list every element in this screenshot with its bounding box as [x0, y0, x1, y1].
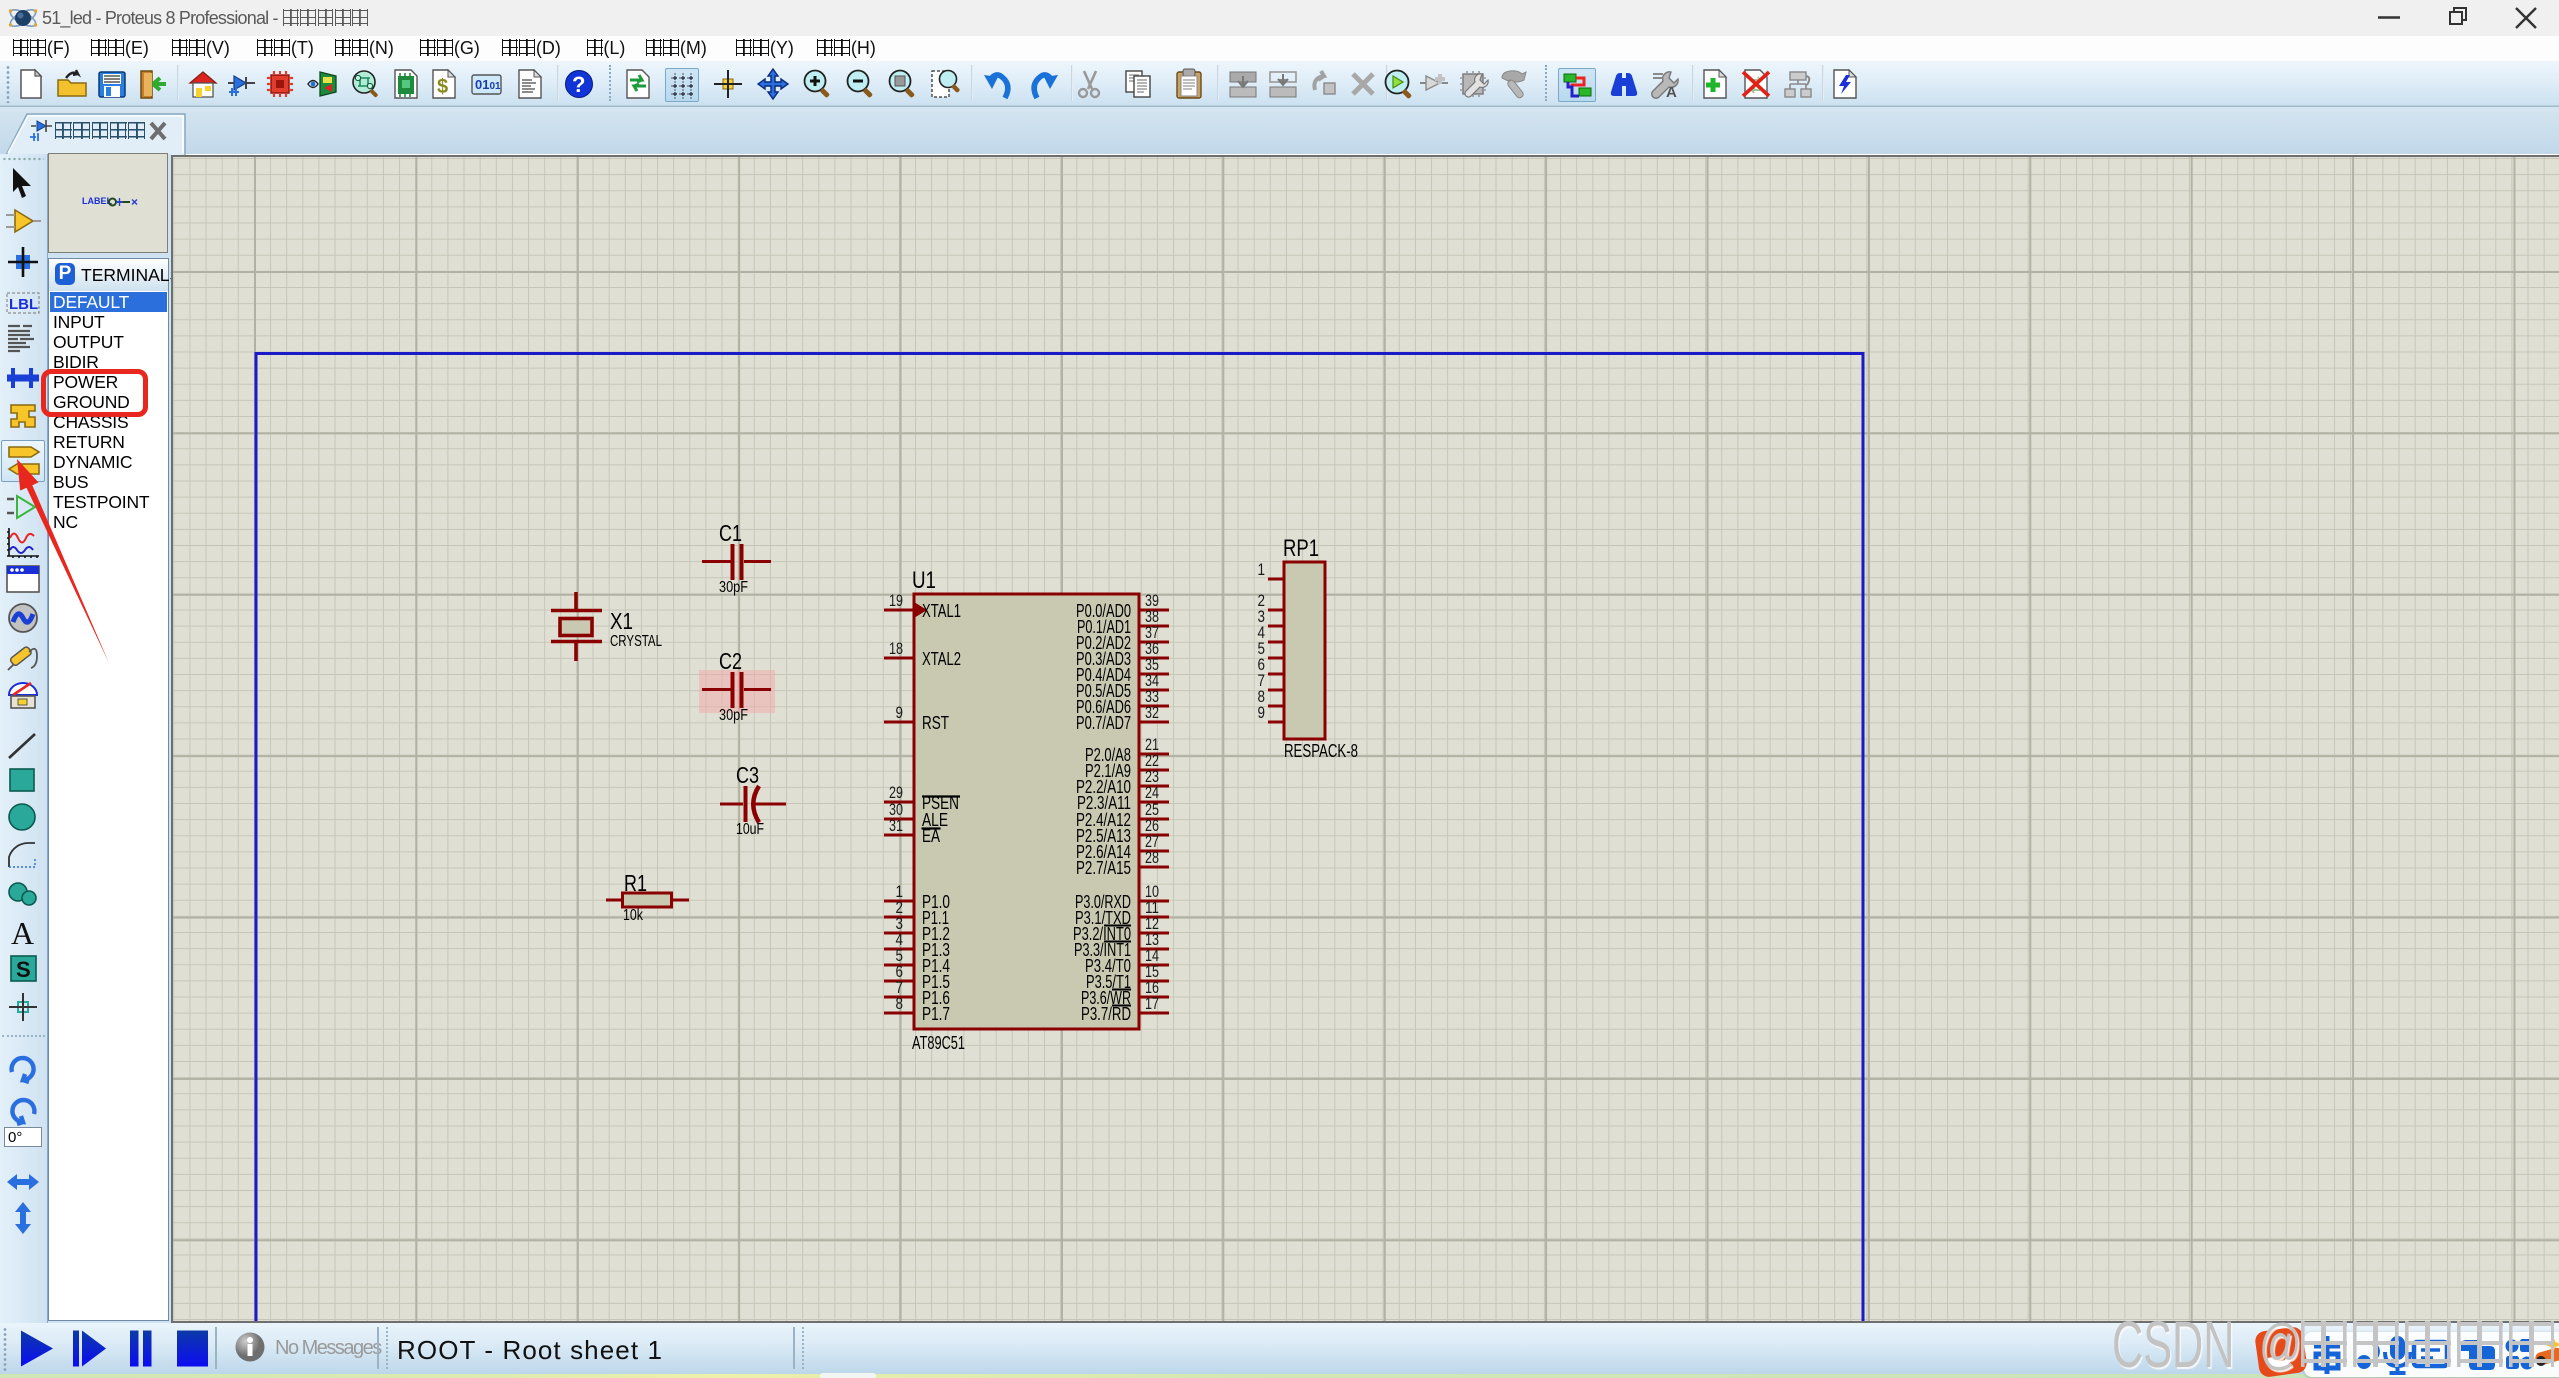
svg-text:XTAL2: XTAL2: [922, 649, 961, 669]
svg-text:A: A: [11, 916, 34, 950]
U1 XTAL1 clock marker: [914, 602, 927, 618]
graph tool: [5, 526, 43, 560]
svg-text:18: 18: [889, 639, 903, 658]
2D circle tool: [5, 801, 43, 835]
rotate cw button: [5, 1052, 43, 1086]
U1 right pin wires: [1139, 610, 1169, 1013]
rotate ccw button: [5, 1094, 43, 1128]
svg-text:CRYSTAL: CRYSTAL: [610, 633, 662, 650]
svg-text:P2.7/A15: P2.7/A15: [1076, 858, 1131, 878]
2D box tool: [5, 764, 43, 798]
generator tool: [5, 602, 43, 636]
flip horizontal button: [5, 1166, 43, 1200]
svg-text:S: S: [16, 957, 31, 982]
svg-text:28: 28: [1145, 848, 1159, 867]
svg-text:X1: X1: [610, 608, 633, 634]
svg-text:C3: C3: [736, 762, 759, 788]
capacitor C2: [702, 672, 771, 708]
U1 left pin names: [922, 601, 961, 1024]
svg-text:RESPACK-8: RESPACK-8: [1284, 741, 1358, 761]
RP1 pin numbers: [1258, 560, 1266, 722]
svg-text:?: ?: [572, 72, 585, 97]
red annotation arrow: [0, 440, 130, 680]
U1 overbars PSEN EA: [922, 797, 961, 829]
angle box: [4, 1127, 42, 1147]
U1 overbars INT0 INT1 WR RD: [1104, 926, 1131, 1006]
2D line tool: [5, 730, 43, 764]
2D arc tool: [5, 839, 43, 873]
current probe / instrument tool: [5, 679, 43, 713]
svg-text:31: 31: [889, 816, 903, 835]
resistor pack RP1 body: [1284, 562, 1325, 739]
svg-text:9: 9: [896, 703, 904, 722]
2D marker tool: [5, 991, 43, 1025]
CSDN logo: [2252, 1326, 2310, 1378]
bus tool: [5, 362, 43, 396]
pause button: [129, 1330, 163, 1368]
component mode tool: [5, 206, 43, 240]
svg-text:U1: U1: [912, 567, 936, 594]
cursor tool: [5, 166, 43, 200]
svg-text:$: $: [437, 76, 448, 98]
RP1 pin wires: [1268, 579, 1284, 722]
flip vertical button: [5, 1200, 43, 1234]
svg-text:P0.7/AD7: P0.7/AD7: [1076, 713, 1131, 733]
svg-text:RST: RST: [922, 713, 949, 733]
svg-text:RP1: RP1: [1283, 535, 1319, 562]
device pin tool: [5, 491, 43, 525]
svg-text:10k: 10k: [623, 907, 643, 924]
svg-text:C1: C1: [719, 520, 742, 546]
U1 right pin names: [1073, 601, 1131, 1024]
svg-text:XTAL1: XTAL1: [922, 601, 961, 621]
svg-text:30pF: 30pF: [719, 707, 748, 724]
svg-text:R1: R1: [624, 870, 647, 896]
ime lang icon: [2314, 1336, 2340, 1374]
stop button: [176, 1330, 210, 1368]
text script tool: [5, 322, 43, 356]
svg-text:9: 9: [1258, 703, 1266, 722]
resistor R1: [606, 893, 689, 907]
U1 left pin numbers: [889, 591, 903, 1013]
play button: [19, 1330, 59, 1368]
sheet border: [256, 354, 1863, 1378]
svg-text:17: 17: [1145, 994, 1159, 1013]
terminal tool (selected): [1, 440, 45, 482]
svg-text:C2: C2: [719, 648, 742, 674]
red annotation rounded box around POWER/GROUND: [41, 369, 148, 417]
tape/popup tool: [5, 562, 43, 596]
selection highlight on C2: [699, 670, 775, 713]
2D text tool: [5, 916, 43, 950]
U1 right pin numbers: [1145, 591, 1159, 1013]
IME toolbar: [2304, 1332, 2559, 1377]
info icon: [235, 1332, 265, 1362]
op IC U1 body: [914, 594, 1139, 1029]
svg-text:10uF: 10uF: [736, 821, 764, 838]
ime grid icon: [2506, 1340, 2519, 1353]
capacitor C3 polarized: [720, 786, 786, 823]
svg-text:30pF: 30pF: [719, 579, 748, 596]
svg-text:8: 8: [896, 994, 904, 1013]
ime mic icon: [2390, 1336, 2405, 1360]
svg-text:P3.7/RD: P3.7/RD: [1081, 1004, 1131, 1024]
ime toolbox icon: [2461, 1340, 2495, 1370]
voltage probe tool: [5, 642, 43, 676]
capacitor C1: [702, 544, 771, 580]
svg-text:A: A: [1666, 84, 1677, 101]
svg-text:P1.7: P1.7: [922, 1004, 950, 1024]
svg-text:1: 1: [1258, 560, 1266, 579]
2D closed path tool: [5, 878, 43, 912]
svg-text:19: 19: [889, 591, 903, 610]
svg-text:LBL: LBL: [9, 296, 38, 313]
ime keyboard icon: [2414, 1342, 2447, 1366]
crystal X1: [551, 592, 602, 661]
junction dot tool: [5, 246, 43, 280]
CSDN watermark text: [2112, 1306, 2234, 1378]
step button: [72, 1330, 112, 1368]
2D symbol tool: [5, 953, 43, 987]
svg-text:32: 32: [1145, 703, 1159, 722]
ime candidate sliver: [820, 1373, 876, 1378]
U1 left pin wires: [884, 610, 914, 1013]
ime pen icon: [2534, 1346, 2559, 1366]
wire label tool: [5, 287, 43, 321]
ime voice dot icon: [2357, 1355, 2371, 1369]
subcircuit tool: [5, 399, 43, 433]
svg-text:AT89C51: AT89C51: [912, 1033, 965, 1053]
